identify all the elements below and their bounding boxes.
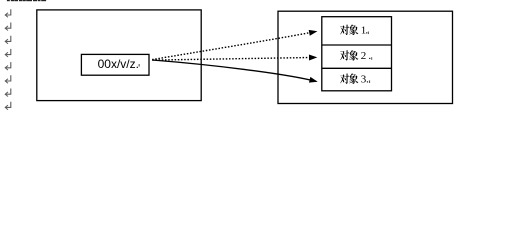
- solid connector arrow to object 3: [152, 60, 318, 83]
- paragraph return mark 3: [5, 36, 11, 44]
- cut-off text line at top: [7, 0, 46, 1]
- hidden end mark row 2: [371, 57, 372, 60]
- hidden end mark row 3: [369, 80, 370, 83]
- label 对象 3 (glyph 象): [349, 74, 359, 84]
- left outer rectangle: [37, 10, 201, 101]
- svg-text:2: 2: [361, 50, 367, 62]
- label 对象 2 (glyph 对): [340, 50, 349, 60]
- svg-text:.: .: [366, 73, 369, 85]
- svg-text:.: .: [365, 24, 368, 36]
- paragraph return mark 6: [5, 75, 11, 83]
- paragraph return mark 7: [5, 89, 11, 97]
- table divider 1: [322, 44, 392, 46]
- label 对象 1 (glyph 对): [340, 25, 349, 35]
- label 对象 2 (glyph 象): [349, 50, 359, 60]
- object list table outer border: [322, 17, 392, 91]
- table divider 2: [322, 67, 392, 69]
- hidden end mark after z: [139, 64, 140, 67]
- label 对象 3 (glyph 对): [340, 74, 349, 84]
- dotted connector arrow to object 2: [152, 55, 317, 61]
- dotted connector arrow to object 1: [152, 30, 317, 60]
- paragraph return mark 4: [5, 49, 11, 57]
- right outer rectangle: [278, 11, 453, 103]
- svg-text:00x/v/z.: 00x/v/z.: [98, 57, 139, 71]
- hidden end mark row 1: [368, 32, 369, 35]
- paragraph return mark 2: [5, 23, 11, 31]
- paragraph return mark 8: [5, 102, 11, 110]
- inner box 00x/v/z: [81, 54, 149, 75]
- paragraph return mark 5: [5, 62, 11, 70]
- svg-text:.: .: [368, 50, 371, 62]
- paragraph return mark 1: [5, 9, 11, 17]
- label 对象 1 (glyph 象): [349, 25, 359, 35]
